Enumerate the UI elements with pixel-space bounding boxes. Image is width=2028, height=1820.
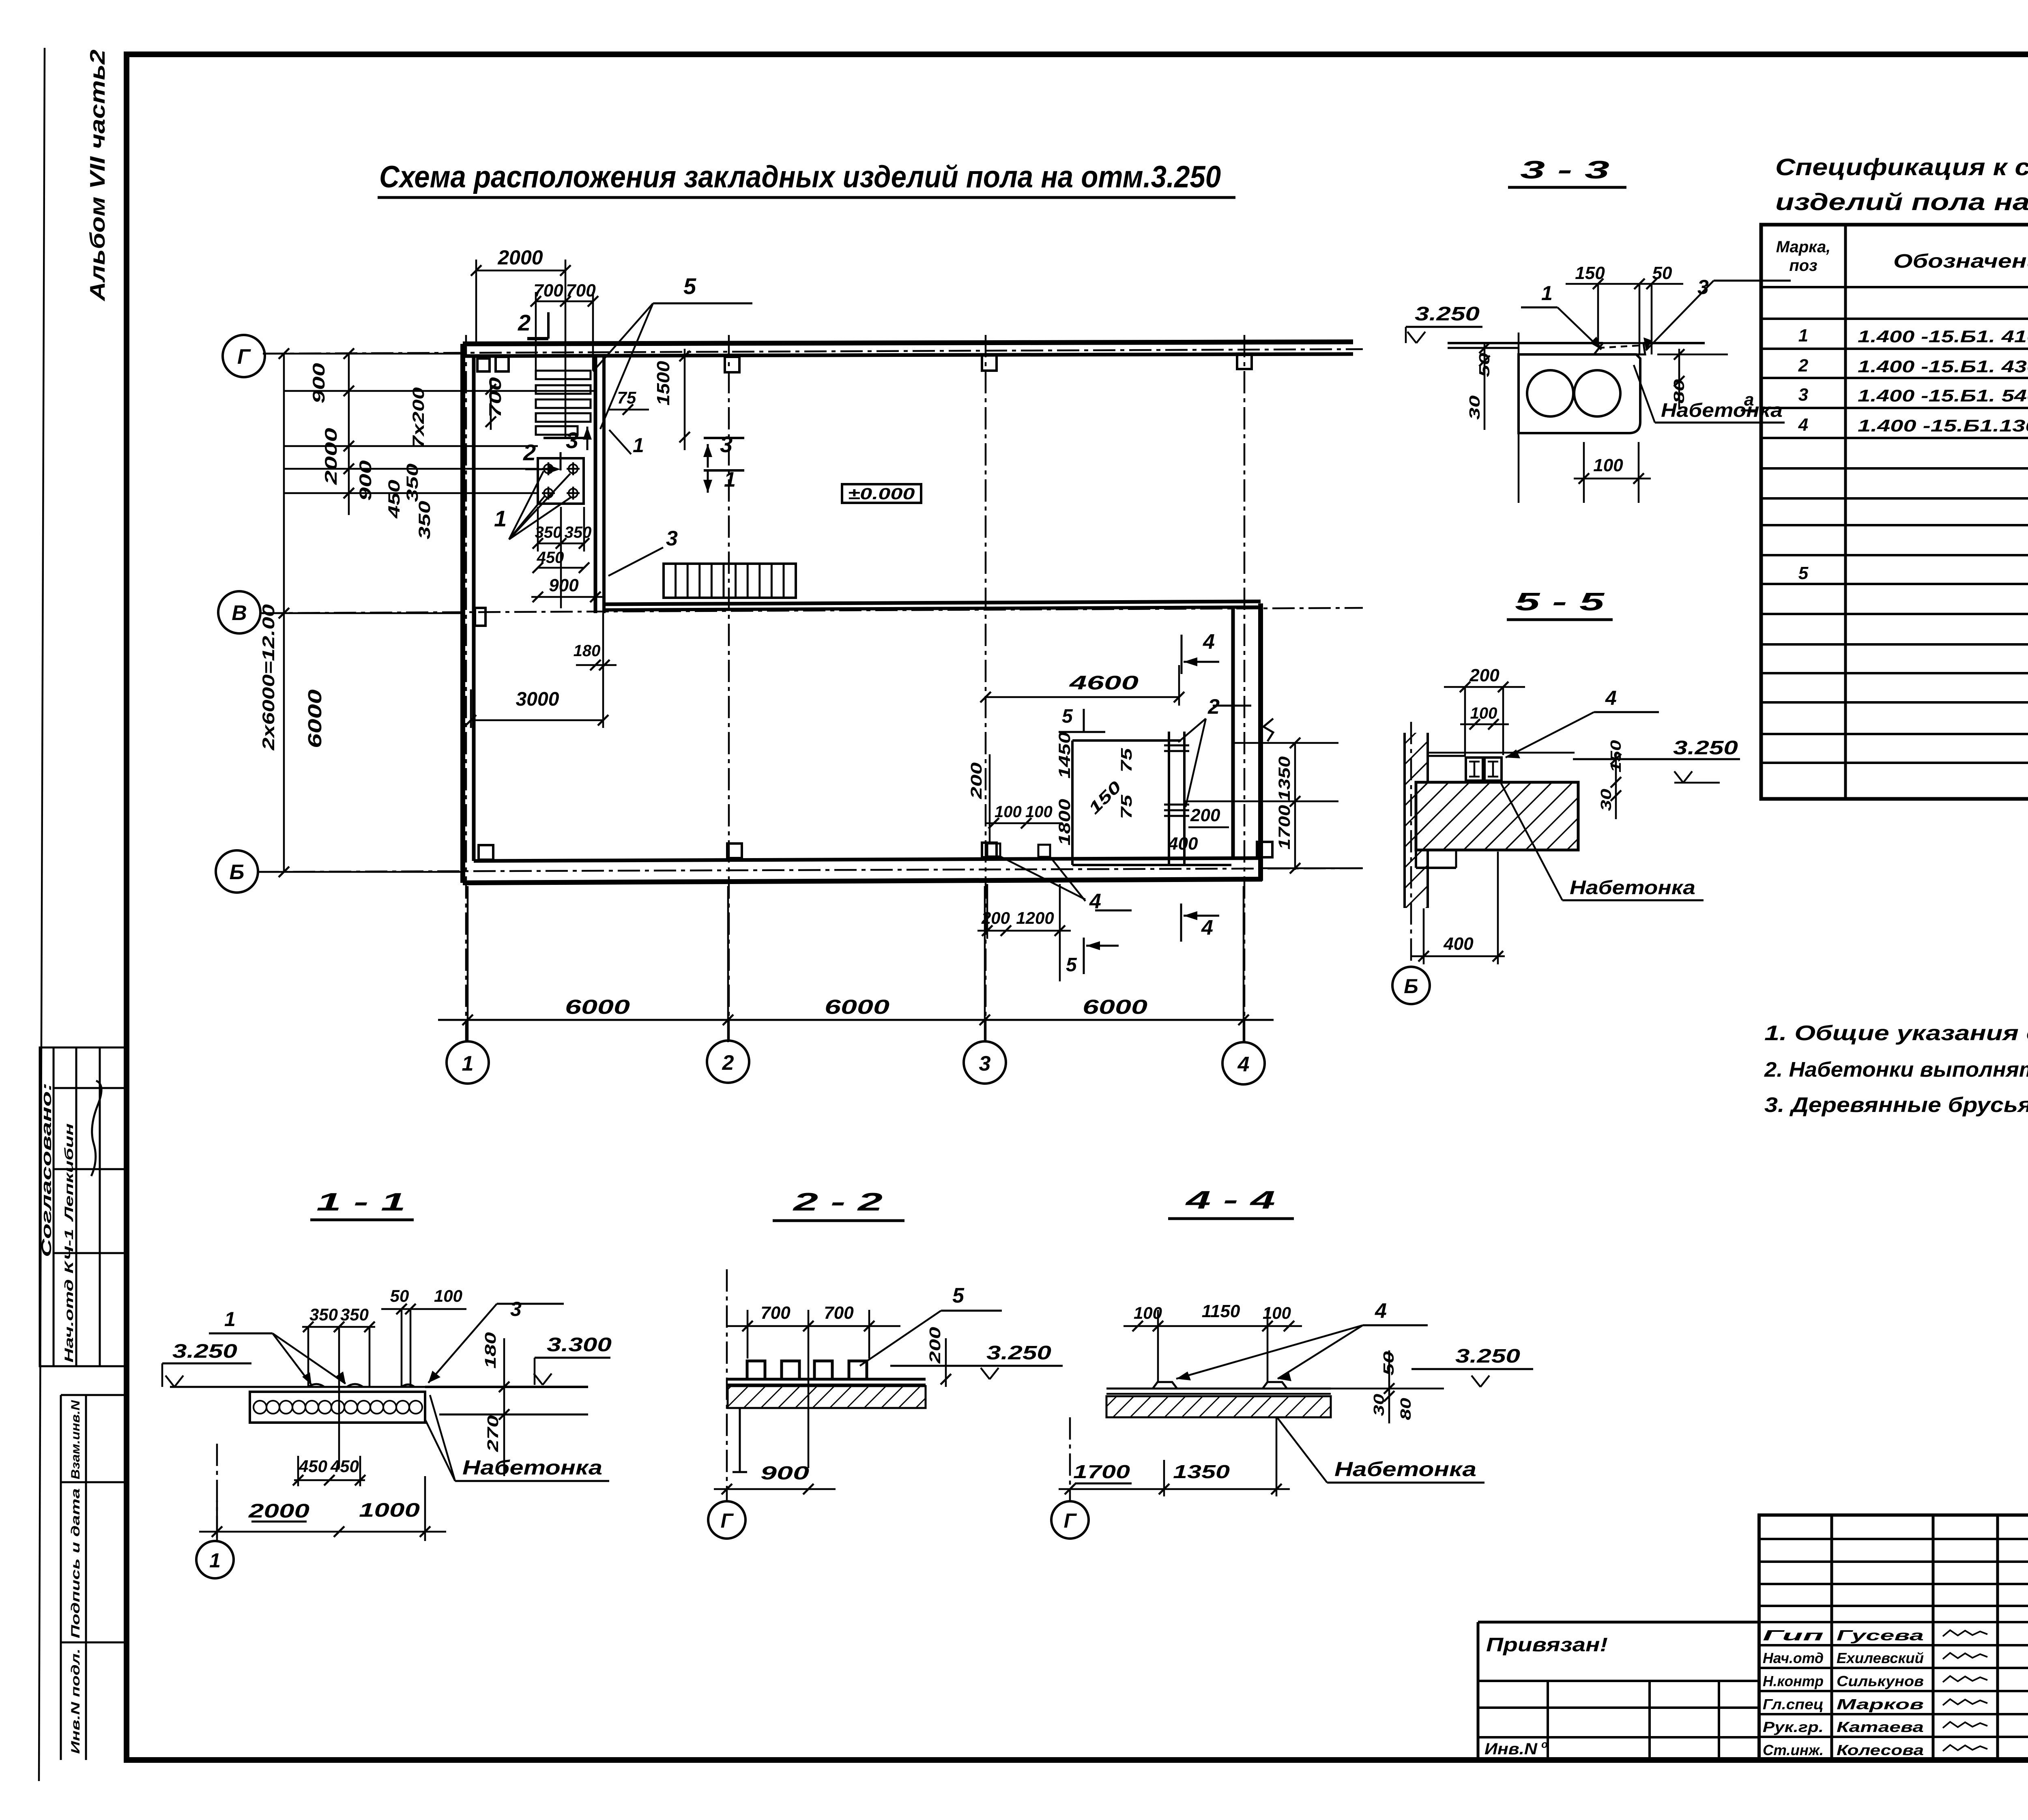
svg-text:450: 450 xyxy=(299,1457,327,1476)
stairs xyxy=(664,564,796,598)
column stub B3 xyxy=(982,843,997,857)
svg-text:900: 900 xyxy=(549,575,579,595)
sec44 weld plates xyxy=(1153,1382,1177,1389)
sec33 slab xyxy=(1519,354,1640,433)
svg-text:4: 4 xyxy=(1798,415,1808,435)
svg-text:Альбом VII часть2: Альбом VII часть2 xyxy=(86,49,110,302)
axis circle B xyxy=(216,850,258,893)
column stub B2 xyxy=(727,843,742,858)
svg-text:Инв.N подл.: Инв.N подл. xyxy=(69,1648,82,1754)
svg-text:2000: 2000 xyxy=(497,246,543,269)
svg-text:Лепкибин: Лепкибин xyxy=(62,1123,76,1222)
svg-text:1.400 -15.Б1. 430- 05: 1.400 -15.Б1. 430- 05 xyxy=(1858,357,2028,376)
sec33 floor line xyxy=(1448,342,1603,344)
svg-text:Гип: Гип xyxy=(1763,1627,1824,1644)
svg-text:1: 1 xyxy=(724,468,736,491)
svg-text:Подпись и дата: Подпись и дата xyxy=(69,1488,82,1638)
dim 2000 top xyxy=(476,270,565,272)
column stub A4 xyxy=(1237,354,1252,369)
svg-text:2х6000=12.00: 2х6000=12.00 xyxy=(259,604,278,751)
svg-text:30: 30 xyxy=(1466,395,1483,420)
svg-text:5: 5 xyxy=(952,1284,965,1307)
svg-text:1: 1 xyxy=(494,506,507,531)
axis circle G xyxy=(223,335,265,377)
partition room right xyxy=(1072,739,1181,742)
svg-text:700: 700 xyxy=(566,281,596,300)
svg-text:900: 900 xyxy=(309,363,328,403)
svg-text:1: 1 xyxy=(633,434,644,457)
plan axis column 2 xyxy=(728,335,730,1040)
svg-text:30: 30 xyxy=(1371,1394,1387,1416)
svg-text:700: 700 xyxy=(533,281,563,300)
svg-text:3: 3 xyxy=(510,1298,522,1320)
sec55 axis line xyxy=(1410,722,1412,967)
svg-text:3: 3 xyxy=(720,431,733,457)
svg-text:а: а xyxy=(1744,390,1754,410)
wall break mark xyxy=(1263,719,1273,741)
sec11 slab with cores xyxy=(250,1392,425,1423)
leader 4 squares xyxy=(1000,856,1085,899)
svg-text:400: 400 xyxy=(1168,834,1198,854)
svg-text:2000: 2000 xyxy=(321,428,340,485)
svg-text:1700: 1700 xyxy=(1073,1461,1130,1482)
svg-text:1. Общие указания см. лист2: 1. Общие указания см. лист2 xyxy=(1764,1022,2028,1045)
svg-text:2: 2 xyxy=(1207,695,1220,719)
column stub A3 xyxy=(982,355,997,371)
svg-text:3000: 3000 xyxy=(516,689,559,710)
plan axis column 1 xyxy=(465,335,467,1041)
svg-text:350: 350 xyxy=(404,464,421,502)
svg-text:2: 2 xyxy=(518,310,531,335)
sec44 dim 100 1150 100 xyxy=(1124,1325,1302,1327)
svg-text:3.300: 3.300 xyxy=(547,1334,612,1356)
anchor squares bottom xyxy=(987,843,1000,856)
svg-text:поз: поз xyxy=(1789,257,1817,275)
svg-text:1: 1 xyxy=(224,1308,236,1331)
svg-text:4600: 4600 xyxy=(1069,672,1139,694)
svg-text:3: 3 xyxy=(1798,385,1808,405)
sec22 column stub below xyxy=(739,1408,741,1472)
titleblock central table xyxy=(1759,1515,2028,1760)
svg-text:75: 75 xyxy=(1118,794,1135,819)
right dim chain 1350 1700 xyxy=(1294,742,1296,870)
svg-text:450: 450 xyxy=(537,549,564,567)
sec22 dim 700 700 xyxy=(727,1325,900,1327)
svg-text:1.400 -15.Б1.130- 05: 1.400 -15.Б1.130- 05 xyxy=(1858,416,2028,435)
svg-text:Набетонка: Набетонка xyxy=(1334,1458,1476,1481)
section cut 4 bottom xyxy=(1180,904,1182,942)
svg-text:3: 3 xyxy=(979,1052,991,1075)
svg-text:6000: 6000 xyxy=(825,996,889,1018)
svg-text:6000: 6000 xyxy=(565,996,630,1018)
svg-text:4: 4 xyxy=(1605,687,1617,709)
svg-text:6000: 6000 xyxy=(1083,996,1147,1018)
sec33 left ext line xyxy=(1518,333,1520,503)
column stub B4 xyxy=(1257,842,1272,857)
svg-text:2: 2 xyxy=(523,440,536,465)
level mark box 0.000 xyxy=(842,484,921,503)
svg-text:Б: Б xyxy=(230,861,245,884)
sec11 lower floor right xyxy=(439,1414,588,1416)
svg-text:3.250: 3.250 xyxy=(1455,1346,1520,1367)
plan axis line B xyxy=(257,868,1363,872)
sec44 floor and slab xyxy=(1106,1388,1331,1390)
svg-text:Гусева: Гусева xyxy=(1837,1627,1924,1644)
svg-text:1150: 1150 xyxy=(1202,1301,1240,1321)
svg-text:200: 200 xyxy=(927,1327,944,1364)
svg-text:Схема расположения закладных: Схема расположения закладных изделий пол… xyxy=(379,160,1221,194)
corner stub plates xyxy=(477,358,490,371)
svg-text:Колесова: Колесова xyxy=(1837,1742,1924,1758)
svg-text:Гл.спец: Гл.спец xyxy=(1763,1696,1824,1713)
dim 450 plate xyxy=(538,567,584,569)
sec44 axis line xyxy=(1069,1417,1071,1501)
svg-text:3.250: 3.250 xyxy=(172,1341,237,1362)
svg-text:Г: Г xyxy=(721,1509,734,1532)
svg-text:7х200: 7х200 xyxy=(410,387,428,448)
bottom dim 6000x3 xyxy=(438,1019,1274,1021)
svg-text:100: 100 xyxy=(1470,704,1497,722)
stud bar xyxy=(1168,732,1170,865)
plan wall on axis V xyxy=(604,601,1261,604)
sec11 topping bumps xyxy=(308,1384,324,1387)
axis circle 3 xyxy=(964,1041,1006,1084)
dim 200 1200 bottom xyxy=(977,930,1071,932)
sec11 floor line xyxy=(170,1386,425,1388)
dim 4600 xyxy=(986,696,1179,698)
svg-text:350: 350 xyxy=(416,501,434,539)
svg-text:350: 350 xyxy=(535,524,562,541)
svg-text:Инв.N: Инв.N xyxy=(1484,1740,1538,1758)
svg-text:Нач.отд: Нач.отд xyxy=(1763,1650,1824,1666)
sheet outer edge line xyxy=(39,48,45,1781)
svg-text:Согласовано:: Согласовано: xyxy=(39,1083,54,1257)
svg-text:Набетонка: Набетонка xyxy=(1661,400,1783,421)
sec11 axis circle 1 xyxy=(196,1541,234,1578)
svg-text:200: 200 xyxy=(1190,805,1220,825)
section cut 1 right xyxy=(704,469,744,472)
svg-text:2: 2 xyxy=(1798,356,1809,376)
svg-text:Катаева: Катаева xyxy=(1837,1719,1924,1735)
svg-text:350: 350 xyxy=(309,1305,338,1324)
svg-text:4: 4 xyxy=(1201,916,1213,940)
sec55 I-beams xyxy=(1466,758,1483,781)
svg-text:75: 75 xyxy=(617,388,636,407)
svg-text:700: 700 xyxy=(760,1303,791,1323)
svg-text:4 - 4: 4 - 4 xyxy=(1184,1186,1275,1214)
embedded bolt plate xyxy=(538,458,584,504)
svg-text:5 - 5: 5 - 5 xyxy=(1515,588,1605,616)
svg-text:Силькунов: Силькунов xyxy=(1837,1673,1924,1689)
column stub A2 xyxy=(725,357,739,372)
plan partition wall 1-2 xyxy=(594,356,597,613)
svg-text:1350: 1350 xyxy=(1276,756,1293,801)
svg-text:400: 400 xyxy=(1443,934,1474,954)
svg-text:Набетонка: Набетонка xyxy=(1570,877,1695,899)
svg-text:Ехилевский: Ехилевский xyxy=(1837,1650,1924,1666)
plan right wall xyxy=(1231,607,1235,859)
svg-text:50: 50 xyxy=(390,1286,409,1305)
left dim chain x700 xyxy=(283,354,285,872)
svg-text:Рук.гр.: Рук.гр. xyxy=(1763,1719,1824,1735)
sec22 axis circle G xyxy=(708,1501,745,1539)
sec11 axis line xyxy=(216,1444,218,1541)
sec11 dim 350 350 xyxy=(302,1326,375,1328)
svg-text:3: 3 xyxy=(566,427,578,453)
svg-text:5: 5 xyxy=(1062,706,1073,727)
svg-text:Б: Б xyxy=(1404,975,1418,998)
titleblock left part xyxy=(1478,1621,1759,1624)
svg-text:Набетонка: Набетонка xyxy=(462,1456,602,1479)
svg-text:Спецификация к схеме распол: Спецификация к схеме расположения заклад… xyxy=(1775,154,2028,180)
sec55 wall strip xyxy=(1405,733,1428,908)
svg-text:1.400 -15.Б1. 410- 03: 1.400 -15.Б1. 410- 03 xyxy=(1858,327,2028,346)
svg-text:3.250: 3.250 xyxy=(1415,303,1480,325)
svg-text:75: 75 xyxy=(1118,748,1135,773)
svg-text:3: 3 xyxy=(666,527,678,550)
left stamp block A xyxy=(40,1047,127,1366)
plan left wall xyxy=(460,344,465,883)
svg-text:900: 900 xyxy=(356,460,375,501)
svg-text:1700: 1700 xyxy=(1276,805,1293,850)
plan axis line V xyxy=(262,608,1363,613)
section cut 5 bottom xyxy=(1083,938,1085,974)
floor grate bars xyxy=(536,371,591,379)
plan axis column 4 xyxy=(1244,335,1246,1041)
sec55 floor ledge xyxy=(1428,755,1466,757)
dim 700 700 top xyxy=(536,300,593,303)
dim 900 below plate xyxy=(531,596,604,598)
svg-text:270: 270 xyxy=(485,1415,502,1452)
sec44 axis circle G xyxy=(1051,1501,1089,1539)
svg-text:450: 450 xyxy=(385,480,403,519)
svg-text:2: 2 xyxy=(722,1051,734,1075)
sec55 axis circle B xyxy=(1392,967,1430,1004)
svg-text:±0.000: ±0.000 xyxy=(848,485,915,503)
svg-text:700: 700 xyxy=(486,377,505,418)
svg-text:Марков: Марков xyxy=(1837,1696,1924,1713)
svg-text:700: 700 xyxy=(824,1303,854,1323)
svg-text:1350: 1350 xyxy=(1173,1461,1230,1482)
svg-text:1800: 1800 xyxy=(1056,799,1074,846)
svg-text:200: 200 xyxy=(1469,665,1500,685)
sec22 axis line xyxy=(726,1269,728,1500)
svg-text:4: 4 xyxy=(1203,630,1215,654)
svg-text:350: 350 xyxy=(340,1305,369,1324)
svg-text:1: 1 xyxy=(209,1549,221,1572)
spec table grid xyxy=(1761,225,2028,799)
svg-text:1450: 1450 xyxy=(1056,732,1074,779)
axis circle 2 xyxy=(707,1041,749,1083)
sec33 topping wedge xyxy=(1594,343,1645,354)
svg-text:900: 900 xyxy=(760,1462,810,1483)
sec55 concrete block xyxy=(1416,782,1578,850)
svg-text:2 - 2: 2 - 2 xyxy=(793,1188,883,1216)
svg-text:4: 4 xyxy=(1375,1299,1387,1323)
svg-text:Г: Г xyxy=(1064,1509,1077,1532)
svg-text:100: 100 xyxy=(1025,803,1053,821)
plan axis column 3 xyxy=(985,335,987,1041)
left dim chain x860 xyxy=(348,354,350,515)
svg-text:Привязан!: Привязан! xyxy=(1486,1634,1608,1656)
left stamp block B xyxy=(60,1395,62,1760)
svg-text:Ст.инж.: Ст.инж. xyxy=(1763,1742,1824,1758)
wall stub V1 xyxy=(475,608,486,626)
svg-text:1: 1 xyxy=(462,1052,474,1075)
plan axis line G xyxy=(263,349,1363,354)
svg-text:350: 350 xyxy=(565,524,592,541)
svg-text:2. Набетонки выполнять из б: 2. Набетонки выполнять из бетона класса … xyxy=(1764,1058,2028,1082)
plan top wall xyxy=(463,342,1353,344)
svg-text:1000: 1000 xyxy=(359,1500,420,1521)
dim 350 350 plate xyxy=(538,543,584,545)
svg-text:180: 180 xyxy=(482,1332,499,1369)
svg-text:1: 1 xyxy=(1541,282,1553,305)
axis circle 4 xyxy=(1222,1042,1265,1084)
plan bottom wall xyxy=(463,879,1262,883)
svg-text:3.250: 3.250 xyxy=(986,1342,1051,1364)
svg-text:1: 1 xyxy=(1798,326,1808,346)
svg-text:Взам.инв.N: Взам.инв.N xyxy=(69,1399,82,1479)
svg-text:3.250: 3.250 xyxy=(1673,737,1738,759)
axis circle V xyxy=(218,591,260,633)
dim 3000 xyxy=(471,719,603,721)
sec11 dim 450 450 xyxy=(294,1479,365,1481)
svg-text:80: 80 xyxy=(1397,1398,1414,1420)
svg-text:3 - 3: 3 - 3 xyxy=(1520,156,1609,184)
svg-text:Обозначение: Обозначение xyxy=(1893,251,2028,272)
svg-text:4: 4 xyxy=(1237,1053,1250,1076)
svg-text:1500: 1500 xyxy=(653,361,673,406)
svg-text:1200: 1200 xyxy=(1016,908,1054,927)
svg-text:180: 180 xyxy=(574,642,601,660)
svg-text:Нач.отд КЧ-1: Нач.отд КЧ-1 xyxy=(62,1229,76,1363)
svg-text:100: 100 xyxy=(1593,455,1623,475)
section cut 3 right xyxy=(704,437,744,439)
svg-text:В: В xyxy=(232,601,247,625)
section cut 3 left pair xyxy=(544,437,584,439)
sec22 floor and slab xyxy=(728,1378,926,1381)
svg-text:Н.контр: Н.контр xyxy=(1763,1673,1824,1689)
axis circle 1 xyxy=(447,1041,489,1084)
svg-text:изделий пола на отм. 3.250: изделий пола на отм. 3.250 xyxy=(1775,189,2028,215)
svg-text:1.400 -15.Б1. 540- 09: 1.400 -15.Б1. 540- 09 xyxy=(1858,386,2028,405)
svg-text:200: 200 xyxy=(968,762,985,799)
sec22 wood blocks xyxy=(747,1361,765,1379)
svg-text:о: о xyxy=(1541,1738,1548,1750)
svg-text:1 - 1: 1 - 1 xyxy=(316,1188,406,1216)
svg-text:Г: Г xyxy=(237,345,251,369)
svg-text:100: 100 xyxy=(434,1286,462,1305)
svg-text:2000: 2000 xyxy=(248,1500,310,1522)
svg-text:200: 200 xyxy=(981,908,1010,927)
column stub B1 xyxy=(479,845,493,860)
svg-text:5: 5 xyxy=(683,273,696,299)
svg-text:450: 450 xyxy=(330,1457,359,1476)
svg-text:5: 5 xyxy=(1798,563,1809,583)
svg-text:5: 5 xyxy=(1066,954,1077,976)
svg-text:3. Деревянные брусья антисеп: 3. Деревянные брусья антисептировать. xyxy=(1764,1093,2028,1117)
svg-text:6000: 6000 xyxy=(304,689,325,748)
svg-text:Марка,: Марка, xyxy=(1776,238,1831,256)
